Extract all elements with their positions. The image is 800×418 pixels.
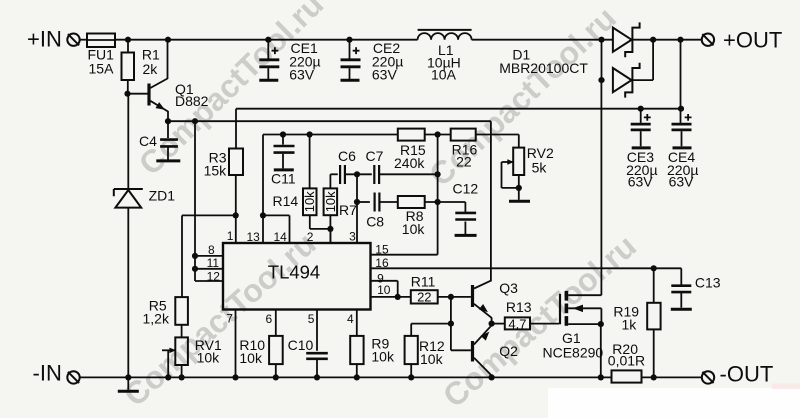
svg-text:4,7: 4,7	[508, 316, 526, 331]
svg-text:10k: 10k	[323, 191, 338, 212]
wire VCC feed pins 8-11-12	[194, 121, 196, 281]
svg-text:C11: C11	[271, 171, 296, 187]
terminal -IN	[67, 371, 79, 383]
svg-text:1: 1	[227, 229, 234, 243]
capacitor C8	[357, 201, 370, 203]
svg-text:63V: 63V	[289, 66, 315, 82]
mosfet G1 NCE8290	[559, 294, 561, 325]
resistor R7 10k	[329, 174, 331, 188]
svg-text:ZD1: ZD1	[149, 187, 176, 203]
resistor R1 2k	[127, 40, 129, 53]
svg-text:NCE8290: NCE8290	[543, 345, 604, 361]
resistor R9 10k	[350, 336, 363, 364]
svg-text:10k: 10k	[371, 349, 395, 365]
svg-text:R11: R11	[411, 274, 436, 290]
capacitor C6	[330, 173, 337, 175]
svg-text:C7: C7	[366, 148, 384, 164]
node Q1 emitter / VCC	[165, 118, 171, 124]
inductor L1 10uH 10A	[418, 29, 472, 31]
wire VCC line to driver column	[168, 120, 491, 122]
svg-text:R7: R7	[339, 202, 357, 218]
resistor R16 22	[451, 129, 476, 141]
wire output sense rail	[236, 108, 681, 110]
wire +OUT sense drop	[680, 40, 682, 123]
capacitor C10	[306, 352, 328, 355]
svg-text:1,2k: 1,2k	[143, 310, 170, 326]
svg-text:10k: 10k	[420, 351, 444, 367]
svg-text:+IN: +IN	[27, 26, 62, 51]
wire pins 13-14 tie jog	[263, 214, 290, 216]
capacitor C13	[654, 267, 682, 269]
terminal +IN	[67, 34, 79, 46]
capacitor CE3 220u 63V	[640, 109, 642, 123]
wire soft-start tie line	[182, 214, 236, 216]
svg-text:4: 4	[347, 312, 354, 326]
diode D1 MBR20100CT upper half	[613, 28, 632, 52]
wire comp node riser	[425, 134, 451, 136]
svg-text:15A: 15A	[89, 60, 115, 76]
svg-text:1k: 1k	[622, 316, 638, 332]
svg-text:MBR20100CT: MBR20100CT	[499, 60, 588, 76]
wire pin16 current sense line	[371, 267, 654, 269]
svg-text:C8: C8	[366, 213, 384, 229]
terminal +OUT	[702, 34, 714, 46]
svg-text:240k: 240k	[394, 155, 425, 171]
wire pin13 riser	[262, 135, 264, 244]
svg-text:R13: R13	[506, 299, 532, 315]
svg-text:+OUT: +OUT	[723, 28, 782, 53]
node pin1 tie	[233, 212, 239, 218]
wire pin3 riser	[356, 174, 358, 243]
svg-text:15k: 15k	[204, 162, 228, 178]
svg-text:C4: C4	[139, 133, 157, 149]
capacitor CE2 220u 63V	[349, 40, 351, 59]
potentiometer RV2 5k	[518, 135, 520, 148]
terminal -OUT	[702, 371, 714, 383]
capacitor CE1 220u 63V	[267, 40, 269, 59]
svg-text:5k: 5k	[532, 159, 548, 175]
resistor R19 1k	[653, 268, 655, 303]
wire comp rail	[263, 134, 398, 136]
svg-text:10k: 10k	[402, 221, 426, 237]
ground bar	[127, 377, 129, 389]
resistor R14 10k	[309, 135, 311, 189]
svg-text:D882: D882	[175, 93, 209, 109]
svg-text:TL494: TL494	[268, 261, 320, 282]
svg-text:8: 8	[208, 243, 215, 257]
svg-text:C10: C10	[288, 337, 314, 353]
transistor Q2	[471, 341, 474, 362]
svg-text:11: 11	[207, 256, 220, 270]
svg-text:7: 7	[226, 311, 233, 325]
svg-text:C12: C12	[453, 181, 479, 197]
wire -OUT rail	[80, 376, 612, 378]
svg-text:Q2: Q2	[499, 343, 518, 359]
resistor R15 240k	[398, 129, 425, 141]
svg-text:63V: 63V	[628, 174, 654, 190]
svg-text:63V: 63V	[372, 66, 398, 82]
wire D1 cathode to +OUT	[653, 39, 702, 41]
resistor R10 10k	[269, 336, 283, 364]
svg-text:10A: 10A	[431, 66, 457, 82]
zener diode ZD1	[127, 94, 129, 189]
capacitor C12	[464, 202, 466, 212]
svg-text:63V: 63V	[669, 174, 695, 190]
wire +IN to fuse	[80, 39, 87, 41]
resistor R12 10k	[410, 324, 412, 336]
resistor R11 22	[411, 290, 438, 303]
capacitor C4	[167, 121, 169, 138]
svg-text:C6: C6	[338, 148, 356, 164]
svg-text:2k: 2k	[143, 61, 159, 77]
IC U1 TL494 body	[223, 243, 371, 310]
capacitor CE4 220u 63V	[672, 123, 692, 126]
svg-text:C13: C13	[695, 275, 721, 291]
svg-text:2: 2	[307, 230, 314, 244]
svg-text:10k: 10k	[197, 350, 221, 366]
svg-text:6: 6	[266, 312, 273, 326]
resistor R8 10k	[379, 201, 397, 203]
diode D1 lower half	[601, 40, 603, 80]
svg-text:13: 13	[247, 230, 261, 244]
capacitor C11	[282, 135, 284, 145]
svg-text:3: 3	[349, 229, 356, 243]
svg-text:0,01R: 0,01R	[608, 352, 645, 368]
resistor R3 15k	[229, 149, 243, 176]
svg-text:22: 22	[456, 154, 472, 170]
wire L1 to D1 anode	[472, 39, 613, 41]
wire driver base column	[450, 297, 452, 350]
svg-text:-IN: -IN	[33, 361, 62, 386]
wire +IN rail (fuse to L1)	[115, 39, 418, 41]
transistor Q1 D882	[147, 84, 150, 106]
resistor R13 4,7	[492, 323, 505, 325]
resistor R5 1,2k	[181, 215, 183, 297]
svg-text:Q3: Q3	[499, 280, 518, 296]
svg-text:R14: R14	[273, 193, 299, 209]
fuse FU1 15A	[87, 34, 115, 48]
svg-text:14: 14	[274, 230, 288, 244]
resistor R20 0,01R shunt	[612, 370, 642, 382]
svg-text:10: 10	[377, 283, 391, 297]
svg-text:-OUT: -OUT	[720, 361, 774, 386]
svg-text:10k: 10k	[302, 191, 317, 212]
svg-text:22: 22	[417, 290, 431, 305]
transistor Q3	[471, 285, 474, 307]
potentiometer RV1 10k	[175, 337, 188, 365]
capacitor C7	[373, 165, 375, 184]
svg-text:10k: 10k	[239, 350, 263, 366]
node pin16 / R19 / C13	[651, 265, 657, 271]
svg-text:5: 5	[308, 312, 315, 326]
